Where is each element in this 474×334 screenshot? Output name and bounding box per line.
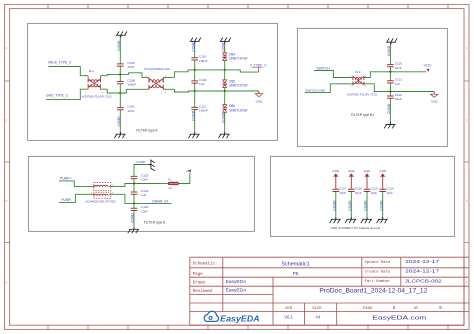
svg-text:GND_TYPE_C: GND_TYPE_C — [46, 94, 69, 98]
border zone labels — [5, 46, 467, 285]
svg-text:10nF: 10nF — [355, 191, 362, 195]
svg-text:V0.1: V0.1 — [284, 314, 293, 319]
svg-text:10nF: 10nF — [127, 109, 134, 113]
chassis ground (C129 branch) — [361, 217, 372, 223]
svg-text:1: 1 — [146, 76, 147, 78]
wire SWITCH to FL3 — [314, 71, 353, 78]
svg-text:Reviewed: Reviewed — [193, 289, 213, 294]
svg-text:DRAIN_GT: DRAIN_GT — [152, 199, 168, 203]
svg-text:10nF: 10nF — [127, 65, 134, 69]
wire cap column block B — [133, 179, 135, 230]
chassis ground (top, col 1) — [116, 31, 127, 37]
svg-text:COMD: COMD — [387, 45, 391, 56]
wire FL3 to GND — [364, 84, 434, 92]
junction col1 top — [119, 73, 121, 75]
svg-text:FL1: FL1 — [89, 69, 95, 73]
svg-text:Create Date: Create Date — [365, 271, 391, 275]
svg-text:SMBT10CAY: SMBT10CAY — [229, 84, 249, 88]
svg-text:3: 3 — [365, 86, 366, 88]
svg-text:1A: 1A — [168, 186, 172, 190]
common-mode choke FL1 — [82, 69, 113, 99]
capacitor C101 — [117, 105, 135, 113]
junction col2 bottom — [194, 90, 196, 92]
wire C127 branch — [335, 192, 337, 220]
wire COMD column 3 — [224, 41, 226, 134]
capacitor C120 — [387, 62, 402, 70]
chassis ground (C12A branch) — [377, 217, 388, 223]
fuse F1 — [168, 177, 179, 190]
capacitor C10B — [117, 78, 136, 86]
svg-text:FILTER type B1: FILTER type B1 — [351, 113, 374, 117]
svg-text:COMD: COMD — [221, 41, 225, 52]
wire FL2 to F1 (top) — [109, 184, 160, 187]
junction col3 top — [224, 69, 226, 71]
svg-text:100nF: 100nF — [199, 59, 208, 63]
svg-text:3: 3 — [165, 92, 166, 94]
chassis ground (CGND, rotated) — [149, 160, 155, 171]
svg-text:SMBT10CAY: SMBT10CAY — [229, 57, 249, 61]
chassis ground (bottom, col 1) — [114, 132, 125, 138]
capacitor C100 — [117, 61, 135, 69]
junction col2 top — [194, 69, 196, 71]
wire PUMP+ to FL2 — [59, 181, 95, 187]
capacitor C132 — [131, 189, 149, 197]
wire L2 to GND (bottom) — [163, 89, 259, 92]
svg-text:3: 3 — [102, 92, 103, 94]
svg-text:PUMP-: PUMP- — [61, 198, 71, 202]
svg-text:PCAQ7060MA-102: PCAQ7060MA-102 — [144, 67, 170, 71]
common-mode choke FL3 — [347, 70, 378, 96]
chassis ground (top, col 2) — [190, 38, 201, 44]
TVS diode D84 — [222, 52, 248, 60]
svg-text:COMD: COMD — [191, 41, 195, 52]
svg-text:COMD: COMD — [117, 40, 121, 51]
svg-text:PUMP+: PUMP+ — [60, 176, 71, 180]
svg-text:GND: GND — [379, 169, 387, 173]
wire PUMP- to FL2 — [59, 194, 95, 202]
power symbol GND up arrow (C129 branch) — [365, 173, 370, 188]
svg-text:100nF: 100nF — [199, 109, 208, 113]
common-mode filter FL2 ACM4520 — [86, 183, 117, 204]
svg-text:GND: GND — [332, 169, 340, 173]
svg-text:GND: GND — [256, 99, 264, 103]
wire C12A branch — [382, 192, 384, 220]
svg-text:EasyEDA.com: EasyEDA.com — [372, 315, 426, 321]
svg-text:COMD: COMD — [221, 112, 225, 123]
svg-text:F1: F1 — [168, 177, 172, 181]
junction B bottom — [133, 202, 135, 204]
svg-text:VBUS_TYPE_C: VBUS_TYPE_C — [48, 61, 72, 65]
capacitor C12A — [379, 186, 393, 195]
svg-text:COMD: COMD — [332, 200, 336, 211]
svg-text:EasyEDA: EasyEDA — [220, 314, 259, 324]
svg-text:1: 1 — [91, 185, 92, 187]
title block grid — [190, 257, 469, 325]
svg-text:V_TYPE_C: V_TYPE_C — [250, 63, 267, 67]
svg-text:C12A: C12A — [386, 186, 393, 190]
wire L2 to V_TYPE_C (top) — [163, 70, 258, 78]
chassis ground (bottom, col 2) — [189, 132, 200, 138]
chassis ground (top, block D) — [386, 38, 397, 44]
capacitor C111 — [191, 104, 207, 112]
svg-text:JLCPCB-002: JLCPCB-002 — [405, 278, 443, 283]
wire FL3 to V12V — [364, 72, 426, 78]
svg-text:FILTER type B: FILTER type B — [144, 220, 166, 224]
svg-text:PAGE: PAGE — [363, 307, 373, 311]
svg-text:Schematic:: Schematic: — [193, 261, 218, 266]
power symbol GND up arrow (C127 branch) — [333, 173, 338, 188]
svg-text:SWITCH: SWITCH — [317, 66, 331, 70]
svg-text:SMBT10CAY: SMBT10CAY — [229, 108, 249, 112]
svg-text:GND: GND — [364, 169, 372, 173]
svg-text:COMD: COMD — [348, 200, 352, 211]
svg-text:2: 2 — [146, 92, 147, 94]
svg-text:Update Date: Update Date — [365, 260, 391, 265]
capacitor C125 — [131, 173, 149, 181]
svg-text:Schematic1: Schematic1 — [281, 262, 309, 268]
wire C129 branch — [366, 192, 368, 220]
wire GND_TYPE_C to FL1 — [46, 89, 88, 99]
svg-text:C128: C128 — [355, 186, 362, 190]
FILTER type A block outline — [28, 23, 278, 140]
svg-text:COMD: COMD — [364, 200, 368, 211]
svg-text:GND CONNECT TO Chassis Ground: GND CONNECT TO Chassis Ground — [331, 226, 381, 230]
junction B top — [133, 182, 135, 184]
svg-text:COMD: COMD — [191, 110, 195, 121]
svg-text:10nF: 10nF — [371, 191, 378, 195]
svg-text:1: 1 — [350, 76, 351, 78]
common-mode choke L2 PCAQ7060MA-102 — [144, 67, 170, 94]
power symbol GND (block D) — [431, 92, 439, 104]
svg-text:10nF: 10nF — [141, 178, 148, 182]
svg-text:GND: GND — [431, 100, 439, 104]
svg-text:1uF: 1uF — [199, 82, 204, 86]
junction D bottom — [389, 90, 391, 92]
svg-text:ProDoc_Board1_2024-12-04_17_12: ProDoc_Board1_2024-12-04_17_12 — [319, 289, 428, 295]
svg-text:10nF: 10nF — [395, 97, 402, 101]
svg-text:EasyEDA: EasyEDA — [226, 279, 247, 285]
svg-text:SIZE: SIZE — [312, 307, 322, 311]
TVS diode D85 — [222, 79, 248, 87]
svg-text:10nF: 10nF — [395, 66, 402, 70]
wire FL1 to L2 (bottom) — [101, 89, 149, 93]
wire junction to F1 — [160, 183, 168, 185]
capacitor C128 — [348, 186, 362, 195]
chassis ground (bottom, block D) — [384, 122, 395, 128]
capacitor C127 — [333, 186, 347, 195]
chassis ground (C127 branch) — [330, 217, 341, 223]
svg-text:1uF: 1uF — [141, 193, 146, 197]
wire FL2 to DRAIN_GT (bottom) — [109, 194, 171, 203]
wire C128 branch — [350, 192, 352, 220]
svg-text:ACM7060-701-2PL-TL01: ACM7060-701-2PL-TL01 — [82, 95, 113, 99]
capacitor C126 — [131, 205, 149, 213]
power symbol GND up arrow (C128 branch) — [349, 173, 354, 188]
svg-text:C129: C129 — [371, 186, 378, 190]
svg-text:Part Number: Part Number — [365, 279, 391, 284]
capacitor C122 — [387, 93, 402, 101]
wire COMD column block D — [389, 42, 391, 124]
svg-text:10nF: 10nF — [141, 210, 148, 214]
svg-text:GND: GND — [348, 169, 356, 173]
junction D top — [389, 71, 391, 73]
svg-text:C127: C127 — [339, 186, 346, 190]
svg-text:2024-12-17: 2024-12-17 — [405, 269, 440, 274]
svg-text:2: 2 — [85, 92, 86, 94]
svg-text:ACM4520V-901-2P-T002: ACM4520V-901-2P-T002 — [86, 200, 117, 204]
svg-text:10nF: 10nF — [386, 191, 393, 195]
wire CGND column top — [134, 165, 151, 177]
svg-text:1uF: 1uF — [395, 82, 400, 86]
svg-text:COMD: COMD — [387, 103, 391, 114]
svg-text:OF: OF — [414, 307, 419, 311]
power symbol GND (block A) — [255, 91, 263, 103]
TVS diode D86 — [222, 104, 248, 112]
FILTER type B block outline — [28, 156, 254, 231]
wire VBUS_TYPE_C to FL1 — [49, 67, 89, 76]
svg-text:ACM7060-701-2PL-TL01: ACM7060-701-2PL-TL01 — [347, 92, 378, 96]
wire COMD column 2 — [194, 41, 196, 134]
svg-text:V12V: V12V — [424, 64, 433, 68]
FILTER type B1 block outline — [297, 28, 447, 146]
svg-text:COMD: COMD — [131, 213, 135, 224]
chassis ground (top, col 3) — [220, 38, 231, 44]
chassis ground (bottom, block B) — [128, 227, 139, 233]
wire COMD column 1 — [119, 35, 121, 134]
junction col1 bottom — [119, 92, 121, 94]
svg-text:SWITCH GND: SWITCH GND — [305, 89, 326, 93]
svg-text:100nF: 100nF — [127, 83, 136, 87]
svg-text:COMD: COMD — [117, 116, 121, 127]
wire SWITCH GND to FL3 — [305, 84, 353, 93]
capacitor C121 — [387, 78, 402, 86]
svg-text:A4: A4 — [315, 314, 321, 319]
wire F1 to output flag — [179, 173, 190, 183]
svg-text:CGND: CGND — [136, 160, 146, 164]
svg-text:2: 2 — [350, 86, 351, 88]
svg-text:COMD: COMD — [379, 200, 383, 211]
EasyEDA logo — [204, 311, 259, 323]
svg-text:FILTER type A: FILTER type A — [136, 128, 158, 132]
svg-text:1: 1 — [85, 74, 86, 76]
svg-text:P5: P5 — [293, 271, 299, 276]
svg-text:2: 2 — [91, 193, 92, 195]
chassis ground (bottom, col 3) — [219, 132, 230, 138]
svg-text:EasyEDA: EasyEDA — [226, 287, 247, 293]
capacitor C129 — [364, 186, 378, 195]
svg-text:Drawn: Drawn — [193, 282, 206, 286]
chassis-ground block outline — [270, 156, 454, 236]
power symbol GND up arrow (C12A branch) — [380, 173, 385, 188]
title block texts — [193, 259, 443, 322]
wire FL1 to L2 (top) — [101, 73, 149, 78]
svg-text:10nF: 10nF — [339, 191, 346, 195]
chassis ground (C128 branch) — [345, 217, 356, 223]
capacitor C10A — [191, 78, 207, 86]
svg-text:FL3: FL3 — [355, 70, 361, 74]
svg-text:Page: Page — [193, 273, 203, 277]
junction col3 bottom — [224, 90, 226, 92]
svg-text:VER: VER — [285, 307, 293, 311]
svg-text:2024-12-17: 2024-12-17 — [405, 259, 440, 264]
capacitor C110 — [191, 55, 207, 63]
